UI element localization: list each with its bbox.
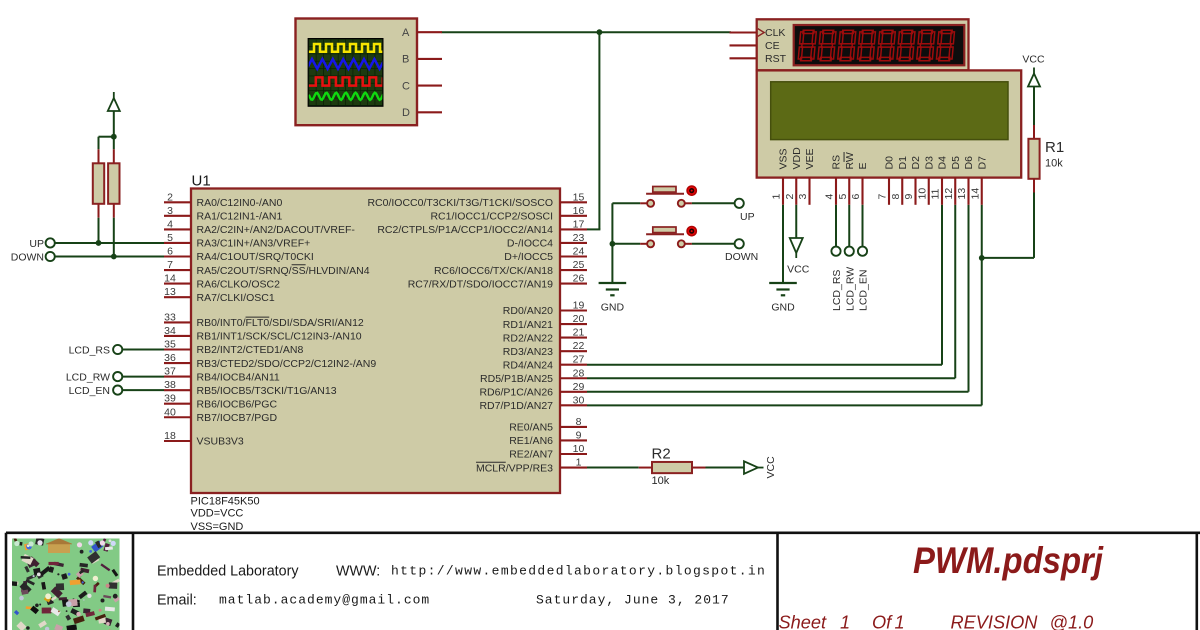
svg-text:6: 6 (167, 246, 173, 258)
svg-text:Email:: Email: (157, 593, 197, 609)
svg-text:13: 13 (164, 286, 176, 298)
svg-text:12: 12 (943, 188, 955, 200)
svg-text:13: 13 (956, 188, 968, 200)
svg-text:RD7/P1D/AN27: RD7/P1D/AN27 (479, 400, 553, 412)
svg-text:VSS=GND: VSS=GND (191, 521, 244, 533)
svg-text:18: 18 (164, 430, 176, 442)
svg-text:RD2/AN22: RD2/AN22 (503, 332, 553, 344)
svg-text:RB7/IOCB7/PGD: RB7/IOCB7/PGD (197, 412, 278, 424)
svg-text:C: C (402, 80, 410, 92)
svg-text:RA6/CLKO/OSC2: RA6/CLKO/OSC2 (197, 278, 281, 290)
svg-text:9: 9 (576, 429, 582, 441)
svg-text:RA7/CLKI/OSC1: RA7/CLKI/OSC1 (197, 292, 275, 304)
svg-text:29: 29 (573, 381, 585, 393)
svg-text:VCC: VCC (787, 264, 810, 276)
svg-text:RE1/AN6: RE1/AN6 (509, 435, 553, 447)
svg-text:4: 4 (824, 194, 836, 200)
svg-text:D5: D5 (950, 156, 962, 170)
svg-text:RA2/C2IN+/AN2/DACOUT/VREF-: RA2/C2IN+/AN2/DACOUT/VREF- (197, 224, 356, 236)
svg-text:VDD: VDD (791, 147, 803, 170)
svg-text:9: 9 (903, 194, 915, 200)
svg-text:RST: RST (765, 53, 787, 65)
svg-text:http://www.embeddedlaboratory.: http://www.embeddedlaboratory.blogspot.i… (391, 564, 766, 579)
svg-text:2: 2 (167, 191, 173, 203)
svg-text:D3: D3 (923, 156, 935, 170)
svg-text:D6: D6 (963, 156, 975, 170)
svg-text:25: 25 (573, 259, 585, 271)
svg-text:3: 3 (167, 205, 173, 217)
svg-text:7: 7 (877, 194, 889, 200)
svg-text:8: 8 (890, 194, 902, 200)
svg-text:D2: D2 (910, 156, 922, 170)
svg-text:PWM.pdsprj: PWM.pdsprj (913, 540, 1104, 581)
svg-text:10k: 10k (1045, 158, 1063, 170)
svg-text:LCD_RW: LCD_RW (844, 267, 856, 311)
svg-text:E: E (857, 162, 869, 169)
svg-text:R1: R1 (1045, 139, 1064, 156)
svg-text:VEE: VEE (804, 148, 816, 169)
svg-text:11: 11 (930, 188, 942, 199)
svg-text:24: 24 (573, 246, 585, 258)
svg-text:RC1/IOCC1/CCP2/SOSCI: RC1/IOCC1/CCP2/SOSCI (430, 211, 553, 223)
svg-text:VSUB3V3: VSUB3V3 (197, 436, 244, 448)
svg-text:1: 1 (576, 457, 582, 469)
svg-text:39: 39 (164, 393, 176, 405)
svg-text:Embedded Laboratory: Embedded Laboratory (157, 564, 299, 580)
svg-text:Saturday, June 3, 2017: Saturday, June 3, 2017 (536, 593, 730, 608)
svg-text:1: 1 (771, 194, 783, 200)
svg-text:4: 4 (167, 218, 173, 230)
svg-text:LCD_RW: LCD_RW (66, 371, 110, 383)
svg-text:RB6/IOCB6/PGC: RB6/IOCB6/PGC (197, 398, 278, 410)
svg-text:RA4/C1OUT/SRQ/T0CKI: RA4/C1OUT/SRQ/T0CKI (197, 251, 314, 263)
svg-text:RB2/INT2/CTED1/AN8: RB2/INT2/CTED1/AN8 (197, 344, 304, 356)
svg-text:30: 30 (573, 394, 585, 406)
svg-text:RB5/IOCB5/T3CKI/T1G/AN13: RB5/IOCB5/T3CKI/T1G/AN13 (197, 385, 337, 397)
svg-text:Of: Of (872, 613, 893, 630)
svg-text:RW: RW (844, 152, 856, 169)
svg-text:D+/IOCC5: D+/IOCC5 (504, 251, 553, 263)
svg-text:D7: D7 (976, 156, 988, 170)
svg-text:28: 28 (573, 367, 585, 379)
svg-text:LCD_EN: LCD_EN (858, 270, 870, 311)
svg-text:GND: GND (771, 302, 795, 314)
svg-text:35: 35 (164, 339, 176, 351)
svg-text:RD6/P1C/AN26: RD6/P1C/AN26 (479, 387, 553, 399)
svg-text:21: 21 (573, 327, 585, 339)
svg-text:7: 7 (167, 259, 173, 271)
svg-text:RA0/C12IN0-/AN0: RA0/C12IN0-/AN0 (197, 197, 283, 209)
svg-text:@1.0: @1.0 (1050, 613, 1094, 630)
svg-text:D0: D0 (884, 156, 896, 170)
svg-text:RC6/IOCC6/TX/CK/AN18: RC6/IOCC6/TX/CK/AN18 (434, 265, 553, 277)
svg-text:B: B (402, 54, 409, 66)
svg-text:LCD_RS: LCD_RS (831, 270, 843, 311)
svg-text:CLK: CLK (765, 27, 785, 39)
svg-text:2: 2 (784, 194, 796, 200)
svg-text:RB3/CTED2/SDO/CCP2/C12IN2-/AN9: RB3/CTED2/SDO/CCP2/C12IN2-/AN9 (197, 358, 377, 370)
svg-text:A: A (402, 27, 410, 39)
svg-text:23: 23 (573, 232, 585, 244)
svg-text:LCD_EN: LCD_EN (69, 385, 110, 397)
svg-text:RB4/IOCB4/AN11: RB4/IOCB4/AN11 (197, 371, 280, 383)
svg-text:10: 10 (916, 188, 928, 200)
svg-text:RS: RS (831, 155, 843, 170)
svg-text:10k: 10k (652, 475, 670, 487)
svg-text:40: 40 (164, 406, 176, 418)
svg-text:1: 1 (840, 613, 850, 630)
svg-text:DOWN: DOWN (11, 252, 44, 264)
svg-text:D4: D4 (937, 156, 949, 170)
svg-text:27: 27 (573, 354, 585, 366)
svg-text:38: 38 (164, 379, 176, 391)
svg-text:37: 37 (164, 366, 176, 378)
svg-text:RA1/C12IN1-/AN1: RA1/C12IN1-/AN1 (197, 211, 283, 223)
svg-text:RD0/AN20: RD0/AN20 (503, 305, 553, 317)
svg-text:RD1/AN21: RD1/AN21 (503, 319, 553, 331)
svg-text:19: 19 (573, 300, 585, 312)
svg-text:U1: U1 (192, 173, 211, 190)
svg-text:VSS: VSS (778, 148, 790, 169)
svg-text:RD5/P1B/AN25: RD5/P1B/AN25 (480, 373, 553, 385)
svg-text:20: 20 (573, 313, 585, 325)
svg-text:VDD=VCC: VDD=VCC (191, 508, 244, 520)
svg-text:8: 8 (576, 416, 582, 428)
svg-text:DOWN: DOWN (725, 251, 758, 263)
svg-text:WWW:: WWW: (336, 564, 380, 580)
svg-text:26: 26 (573, 273, 585, 285)
svg-text:D1: D1 (897, 156, 909, 170)
svg-text:RA5/C2OUT/SRNQ/SS/HLVDIN/AN4: RA5/C2OUT/SRNQ/SS/HLVDIN/AN4 (197, 265, 370, 277)
svg-text:R2: R2 (652, 446, 671, 463)
svg-text:RC2/CTPLS/P1A/CCP1/IOCC2/AN14: RC2/CTPLS/P1A/CCP1/IOCC2/AN14 (377, 224, 553, 236)
svg-text:16: 16 (573, 205, 585, 217)
svg-text:RD3/AN23: RD3/AN23 (503, 346, 553, 358)
svg-text:MCLR/VPP/RE3: MCLR/VPP/RE3 (476, 462, 553, 474)
svg-text:LCD_RS: LCD_RS (69, 344, 110, 356)
svg-text:5: 5 (167, 232, 173, 244)
svg-text:RC0/IOCC0/T3CKI/T3G/T1CKI/SOSC: RC0/IOCC0/T3CKI/T3G/T1CKI/SOSCO (367, 197, 553, 209)
svg-text:RA3/C1IN+/AN3/VREF+: RA3/C1IN+/AN3/VREF+ (197, 238, 311, 250)
svg-text:CE: CE (765, 40, 780, 52)
svg-text:UP: UP (29, 238, 44, 250)
svg-text:D-/IOCC4: D-/IOCC4 (507, 238, 553, 250)
svg-text:REVISION: REVISION (951, 613, 1039, 630)
svg-text:33: 33 (164, 311, 176, 323)
svg-text:15: 15 (573, 191, 585, 203)
svg-text:PIC18F45K50: PIC18F45K50 (191, 496, 260, 508)
svg-text:10: 10 (573, 443, 585, 455)
svg-text:Sheet: Sheet (779, 613, 827, 630)
svg-text:RC7/RX/DT/SDO/IOCC7/AN19: RC7/RX/DT/SDO/IOCC7/AN19 (408, 278, 553, 290)
svg-text:14: 14 (164, 273, 176, 285)
svg-text:RE2/AN7: RE2/AN7 (509, 449, 553, 461)
svg-text:5: 5 (837, 194, 849, 200)
svg-text:17: 17 (573, 218, 585, 230)
svg-text:36: 36 (164, 352, 176, 364)
svg-text:RB1/INT1/SCK/SCL/C12IN3-/AN10: RB1/INT1/SCK/SCL/C12IN3-/AN10 (197, 331, 362, 343)
svg-text:14: 14 (969, 188, 981, 200)
svg-text:matlab.academy@gmail.com: matlab.academy@gmail.com (219, 593, 430, 608)
svg-text:VCC: VCC (765, 456, 777, 479)
svg-text:22: 22 (573, 340, 585, 352)
svg-text:3: 3 (797, 194, 809, 200)
svg-text:RB0/INT0/FLT0/SDI/SDA/SRI/AN12: RB0/INT0/FLT0/SDI/SDA/SRI/AN12 (197, 317, 364, 329)
svg-text:D: D (402, 107, 410, 119)
svg-text:6: 6 (850, 194, 862, 200)
svg-text:34: 34 (164, 325, 176, 337)
svg-text:VCC: VCC (1022, 54, 1045, 66)
svg-text:1: 1 (895, 613, 905, 630)
svg-text:RD4/AN24: RD4/AN24 (503, 359, 553, 371)
svg-text:GND: GND (601, 302, 625, 314)
svg-text:UP: UP (740, 211, 755, 223)
svg-text:RE0/AN5: RE0/AN5 (509, 422, 553, 434)
